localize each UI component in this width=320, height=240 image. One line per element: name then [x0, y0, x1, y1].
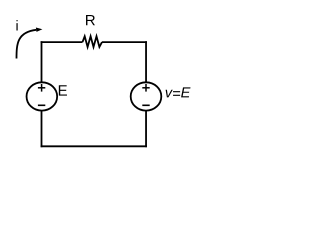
- resistor R: [83, 36, 103, 47]
- plus sign of source v: [142, 84, 149, 92]
- label v=E: [166, 87, 191, 97]
- wire: bottom segment: [41, 145, 147, 147]
- wire: right lower segment from source v to bottom-right corner: [145, 111, 147, 148]
- label E: [59, 85, 67, 95]
- wire: left upper segment from source E to top-left corner: [41, 41, 43, 82]
- minus sign of source E: [38, 104, 45, 106]
- wire: top-right segment from resistor R to top-right corner: [102, 41, 147, 43]
- current direction arrow (clockwise arc): [17, 28, 43, 59]
- current label i: [16, 20, 17, 30]
- label R: [86, 15, 95, 25]
- dependent source v (right circle): [131, 82, 162, 110]
- wire: top-left segment from source E to resistor R: [41, 41, 83, 43]
- independent source E (left circle): [27, 82, 58, 110]
- wire: right upper segment down to source v: [145, 41, 147, 82]
- plus sign of source E: [38, 84, 45, 92]
- wire: left lower segment from bottom-left corner to source E: [41, 111, 43, 148]
- minus sign of source v: [142, 104, 149, 106]
